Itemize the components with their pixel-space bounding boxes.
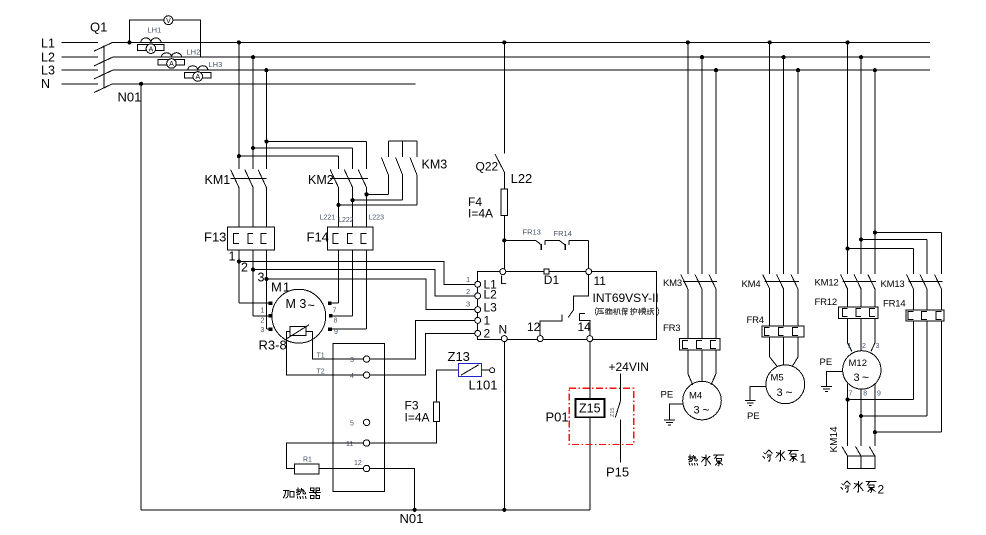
- svg-text:5: 5: [350, 421, 354, 428]
- svg-text:1: 1: [261, 308, 265, 315]
- svg-text:Z13: Z13: [448, 349, 470, 364]
- svg-text:N01: N01: [400, 511, 424, 526]
- svg-text:FR4: FR4: [747, 315, 764, 326]
- svg-text:N: N: [499, 323, 508, 337]
- svg-text:V: V: [166, 18, 171, 25]
- svg-text:3: 3: [777, 387, 783, 399]
- svg-text:LH2: LH2: [187, 48, 201, 57]
- svg-text:~: ~: [862, 371, 869, 385]
- svg-text:Z15: Z15: [579, 402, 601, 416]
- svg-text:N: N: [41, 77, 50, 91]
- svg-text:3: 3: [466, 300, 470, 309]
- svg-text:D1: D1: [544, 273, 560, 287]
- svg-text:L3: L3: [484, 301, 498, 315]
- svg-text:1: 1: [848, 343, 852, 350]
- svg-text:A: A: [169, 61, 174, 68]
- svg-text:9: 9: [334, 329, 338, 336]
- svg-text:KM12: KM12: [815, 278, 839, 289]
- svg-text:FR3: FR3: [663, 323, 680, 334]
- svg-text:3: 3: [854, 372, 860, 384]
- svg-text:~: ~: [786, 386, 793, 400]
- svg-text:L3: L3: [41, 64, 55, 78]
- svg-text:F13: F13: [204, 229, 226, 244]
- svg-text:LH3: LH3: [209, 60, 223, 69]
- svg-text:P15: P15: [606, 465, 629, 480]
- svg-text:7: 7: [333, 308, 337, 315]
- svg-text:FR13: FR13: [523, 228, 541, 237]
- svg-text:L22: L22: [511, 171, 533, 186]
- svg-text:9: 9: [877, 391, 881, 398]
- svg-text:1: 1: [466, 275, 470, 284]
- svg-text:M12: M12: [849, 358, 867, 369]
- svg-text:FR12: FR12: [815, 297, 837, 308]
- svg-text:3: 3: [258, 271, 265, 285]
- svg-text:A: A: [195, 74, 200, 81]
- svg-text:L101: L101: [469, 378, 498, 393]
- svg-text:1: 1: [484, 314, 491, 328]
- svg-text:F14: F14: [307, 229, 329, 244]
- svg-text:3: 3: [876, 343, 880, 350]
- svg-text:M4: M4: [689, 391, 702, 402]
- svg-text:T2: T2: [317, 369, 325, 376]
- svg-text:KM3: KM3: [663, 278, 682, 289]
- svg-text:KM13: KM13: [881, 279, 905, 290]
- svg-text:L222: L222: [338, 217, 354, 224]
- svg-text:PE: PE: [820, 357, 833, 368]
- svg-text:2: 2: [241, 261, 248, 275]
- svg-text:L1: L1: [41, 37, 55, 51]
- svg-text:2: 2: [484, 327, 491, 341]
- svg-text:R3-8: R3-8: [259, 338, 287, 353]
- svg-text:KM1: KM1: [205, 173, 231, 187]
- svg-text:3: 3: [694, 405, 700, 417]
- svg-text:KM14: KM14: [829, 426, 840, 453]
- svg-text:2: 2: [878, 483, 885, 497]
- svg-text:LH1: LH1: [148, 26, 162, 35]
- svg-text:+24VIN: +24VIN: [609, 360, 649, 374]
- svg-text:14: 14: [578, 320, 592, 334]
- svg-text:Z15: Z15: [610, 408, 616, 417]
- svg-text:FR14: FR14: [883, 299, 905, 310]
- svg-text:L2: L2: [484, 288, 498, 302]
- svg-text:Q1: Q1: [90, 20, 107, 35]
- svg-text:PE: PE: [661, 390, 674, 401]
- svg-text:L221: L221: [320, 215, 336, 222]
- svg-text:I=4A: I=4A: [405, 411, 430, 425]
- svg-text:P01: P01: [546, 410, 569, 425]
- svg-text:12: 12: [354, 460, 362, 467]
- svg-text:L: L: [500, 273, 507, 287]
- svg-text:KM3: KM3: [422, 158, 448, 172]
- svg-text:2: 2: [466, 287, 470, 296]
- svg-text:7: 7: [849, 391, 853, 398]
- svg-text:1: 1: [800, 452, 807, 466]
- svg-text:11: 11: [346, 441, 353, 448]
- svg-text:3: 3: [261, 327, 265, 334]
- svg-text:4: 4: [350, 373, 354, 380]
- svg-text:N01: N01: [118, 90, 142, 105]
- svg-text:1: 1: [229, 250, 236, 264]
- svg-text:M 3: M 3: [286, 297, 307, 311]
- svg-text:2: 2: [261, 318, 265, 325]
- svg-text:~: ~: [308, 299, 315, 313]
- svg-text:INT69VSY-II: INT69VSY-II: [593, 291, 659, 305]
- svg-text:KM4: KM4: [742, 279, 761, 290]
- svg-text:L223: L223: [368, 215, 384, 222]
- svg-text:KM2: KM2: [308, 173, 334, 187]
- svg-text:Q22: Q22: [476, 160, 499, 174]
- svg-text:8: 8: [863, 391, 867, 398]
- svg-text:R1: R1: [303, 457, 312, 464]
- svg-text:11: 11: [594, 274, 607, 288]
- svg-text:PE: PE: [747, 411, 760, 422]
- svg-text:M5: M5: [771, 373, 784, 384]
- svg-text:I=4A: I=4A: [468, 207, 493, 221]
- svg-text:3: 3: [350, 357, 354, 364]
- svg-text:L2: L2: [41, 51, 55, 65]
- svg-text:FR14: FR14: [554, 229, 572, 238]
- svg-text:2: 2: [862, 343, 866, 350]
- svg-text:12: 12: [527, 320, 541, 334]
- svg-text:M1: M1: [271, 280, 291, 295]
- svg-text:A: A: [149, 46, 154, 53]
- svg-text:8: 8: [334, 318, 338, 325]
- svg-text:T1: T1: [317, 353, 325, 360]
- svg-text:~: ~: [703, 403, 710, 417]
